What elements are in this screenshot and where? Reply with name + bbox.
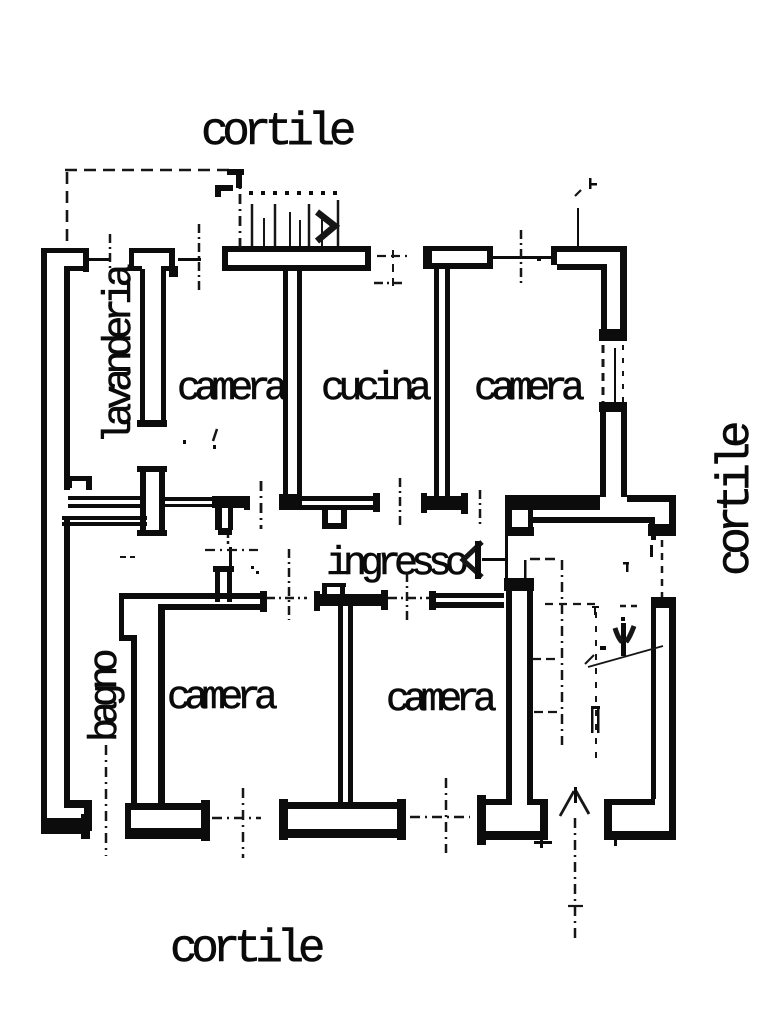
- dashed boundary top horizontal: [65, 169, 230, 172]
- wall corridor NE bottom line: [533, 517, 655, 523]
- small dashes bagno top: [120, 556, 135, 558]
- stair dashes top: [620, 605, 640, 608]
- wall camera2 north-west cap: [423, 246, 493, 269]
- wall lavanderia east cap: [129, 248, 178, 277]
- door leaf mark camera1: [183, 429, 217, 449]
- dotted below pier: [227, 535, 230, 547]
- wall corridor thin lines mid1: [164, 497, 213, 507]
- wall camera3 south bar: [125, 800, 210, 841]
- wall corridor west corner: [62, 516, 147, 526]
- wall camera3 west: [158, 604, 165, 806]
- tick small diagonal: [575, 190, 581, 196]
- door lintel lavanderia west: [88, 258, 109, 261]
- wall corridor NE top line: [627, 495, 675, 502]
- wall cucina south: [297, 493, 380, 512]
- wall camera4 east top cap: [504, 578, 534, 591]
- stair dashed line 2: [595, 612, 597, 758]
- pier corridor T: [212, 496, 250, 535]
- wall stair east lower cap: [651, 597, 676, 608]
- svg-text:lavanderia: lavanderia: [98, 264, 143, 444]
- wall cucina north bar: [222, 246, 371, 271]
- terrace ticks: [252, 200, 338, 246]
- wall lavanderia east end cap: [137, 420, 167, 427]
- window gap small marks right wall: [623, 545, 653, 572]
- stair small mark: [591, 706, 600, 733]
- dot mark: [537, 257, 541, 261]
- door lintel line camera2 north: [493, 256, 551, 259]
- wall corridor NE corner vert: [669, 495, 676, 535]
- door dash ingresso-camera3: [266, 597, 307, 600]
- tick cap top: [227, 169, 244, 188]
- window dashed camera2 east: [603, 345, 623, 402]
- door axis bagno south: [105, 745, 108, 856]
- arrow chevron terrace: [317, 212, 335, 241]
- wall perimeter west inner lower: [64, 520, 70, 804]
- door swing SE: [560, 787, 589, 816]
- door axis ingresso west: [288, 549, 291, 620]
- dash window cucina-camera2: [374, 282, 405, 285]
- wall camera3 north line bottom: [158, 604, 266, 610]
- door jamb lavanderia south hook: [66, 476, 92, 490]
- stair axis long: [561, 560, 564, 745]
- svg-text:cortile: cortile: [201, 106, 354, 158]
- wall corridor thin lines west: [68, 496, 141, 508]
- pier ingresso north: [505, 510, 534, 536]
- door jamb bagno south: [64, 800, 92, 831]
- door axis cucina south: [399, 478, 402, 529]
- door axis stair south: [574, 818, 577, 940]
- tick mark NE: [589, 178, 597, 189]
- wall bagno east upper: [119, 593, 137, 641]
- wall perimeter SW bottom bar: [41, 814, 90, 839]
- stair step dash 2: [532, 658, 556, 660]
- wall south middle bar: [279, 799, 406, 840]
- wall camera1-cucina partition: [283, 271, 302, 497]
- wall stair west corner vert: [649, 517, 655, 535]
- door axis cucina east: [479, 490, 482, 525]
- thin line between piers: [229, 547, 232, 567]
- door dashes bottom left: [212, 817, 261, 820]
- entrance door arrow: [463, 541, 508, 579]
- wall ingresso north bar: [505, 495, 600, 510]
- dashed boundary left vertical: [66, 172, 69, 247]
- wall bagno east lower: [131, 641, 137, 806]
- entrance door arrow dash: [530, 558, 556, 561]
- wall camera3 north line top: [119, 593, 266, 599]
- door dash ingresso-camera4: [388, 597, 429, 600]
- door lintel camera1: [178, 258, 201, 261]
- window dashed stair east: [661, 540, 664, 597]
- stair arrow: [600, 617, 634, 656]
- wall camera3-camera4 partition: [338, 606, 353, 803]
- small dots bagno: [251, 566, 259, 574]
- dash corridor axis left: [205, 549, 258, 551]
- wall camera4 east: [506, 591, 533, 805]
- door axis lavanderia north: [109, 234, 112, 278]
- svg-text:ingresso: ingresso: [326, 542, 467, 587]
- dash axis cucina-camera2: [392, 250, 394, 292]
- stair diagonal: [585, 646, 663, 667]
- stair step dash 1: [545, 603, 598, 605]
- wall camera1-cucina partition south cap: [279, 494, 302, 510]
- svg-text:cucina: cucina: [321, 367, 431, 412]
- pier camera3 north: [213, 566, 234, 602]
- wall cucina east south cap: [421, 493, 468, 514]
- wall partition2 T-bar: [314, 590, 388, 611]
- wall stair south bar: [604, 799, 676, 846]
- wall south-right bar: [477, 795, 548, 845]
- wall camera2 east lower cap: [599, 402, 627, 412]
- dashed boundary right vertical: [239, 172, 242, 249]
- door axis camera1 north: [198, 224, 201, 290]
- corner mark top: [215, 185, 233, 197]
- svg-text:camera: camera: [386, 678, 496, 723]
- door dash line cucina-camera2 upper: [377, 255, 407, 257]
- svg-text:camera: camera: [474, 367, 584, 412]
- tick cross right bar end: [534, 833, 552, 848]
- wall cucina east: [434, 269, 450, 497]
- wall camera2 east junction cap: [599, 329, 627, 341]
- entrance door edge thin line: [505, 510, 508, 580]
- wall lavanderia east: [140, 269, 166, 422]
- door axis corridor-ingresso: [260, 481, 263, 529]
- svg-text:bagno: bagno: [84, 650, 129, 742]
- wall camera2 north-east L: [551, 246, 627, 332]
- pier below cucina south wall: [322, 510, 347, 529]
- stair small T: [592, 606, 599, 615]
- door axis camera2 north: [520, 230, 523, 283]
- thin flue line: [577, 208, 579, 252]
- svg-text:camera: camera: [167, 676, 277, 721]
- thin line window camera2 east: [614, 348, 616, 405]
- svg-text:cortile: cortile: [710, 423, 762, 576]
- wall perimeter west inner upper: [64, 266, 70, 490]
- wall stair east lower: [651, 608, 676, 839]
- svg-text:cortile: cortile: [170, 923, 323, 975]
- door axis camera3 south: [242, 788, 245, 858]
- door dashes bottom middle: [410, 816, 470, 819]
- terrace dots: [249, 191, 337, 195]
- wall camera2 east lower: [600, 412, 627, 497]
- door axis camera4 south: [445, 778, 448, 853]
- wall camera4 north: [429, 591, 504, 610]
- stair step dash 3: [534, 711, 562, 713]
- wall stair east upper cap: [648, 524, 676, 540]
- tick on stair axis: [568, 905, 583, 907]
- wall camera3 north end bar: [260, 591, 267, 612]
- door axis ingresso east: [406, 573, 409, 620]
- wall perimeter west outer: [41, 248, 47, 834]
- svg-text:camera: camera: [177, 367, 287, 412]
- wall perimeter NW cap: [41, 248, 89, 272]
- pier lavanderia SE: [137, 466, 167, 536]
- bump above T-bar: [322, 583, 346, 594]
- thin line above camera4 cap: [524, 560, 527, 578]
